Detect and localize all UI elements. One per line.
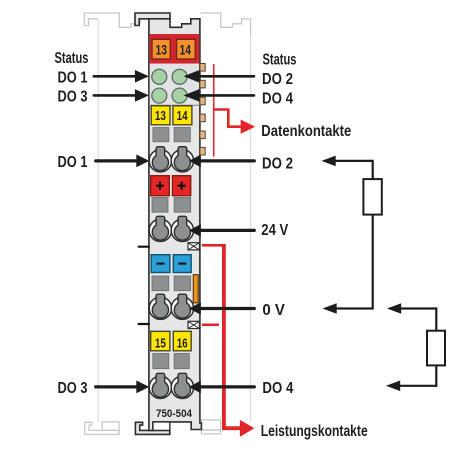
connector row4 right (CAGE CLAMP opening) xyxy=(171,373,193,398)
load circuit 1: 0V arrowhead xyxy=(323,303,337,314)
LED DO1 status xyxy=(152,69,167,84)
orange terminal square 14 (top) xyxy=(177,39,196,59)
load resistor R1 xyxy=(363,179,381,215)
power contact X-box (lower) xyxy=(188,321,199,328)
yellow terminal square 16 xyxy=(173,331,191,351)
data contact tab 6 xyxy=(200,147,205,155)
red power square + left xyxy=(151,176,170,196)
svg-text:DO 2: DO 2 xyxy=(262,71,293,88)
connector row1 right (CAGE CLAMP opening) xyxy=(171,147,193,172)
red header block xyxy=(150,34,199,64)
yellow terminal square 15 xyxy=(151,331,170,351)
LED DO3 status xyxy=(152,88,167,103)
ghost module bottom-right foot bar xyxy=(201,430,220,434)
LED panel xyxy=(150,64,199,105)
connector row3 left (CAGE CLAMP opening) xyxy=(149,294,171,319)
ghost module bottom-left foot xyxy=(85,422,119,434)
ghost module bottom-right notch xyxy=(201,420,220,430)
svg-text:Status: Status xyxy=(55,50,89,67)
red Leistungskontakte line stub (upper) xyxy=(202,244,224,247)
gray clamp square row4 right xyxy=(174,354,189,369)
data contact tab 3 xyxy=(200,97,205,105)
plus sign right xyxy=(178,182,186,190)
connector row2 left (CAGE CLAMP opening) xyxy=(149,216,171,241)
terminal arrow right DO2 xyxy=(200,159,255,162)
data contact tab 2 xyxy=(200,80,205,88)
svg-text:13: 13 xyxy=(155,108,166,123)
svg-text:24 V: 24 V xyxy=(261,222,289,239)
blue power square - left xyxy=(151,255,170,273)
terminal arrow right DO4 xyxy=(200,385,255,388)
orange release latch xyxy=(193,275,198,303)
left power-jumper contact tick (upper) xyxy=(139,246,149,248)
svg-text:14: 14 xyxy=(177,108,189,123)
minus sign right xyxy=(178,263,186,265)
red Leistungskontakte arrowhead xyxy=(240,420,255,437)
gray clamp square row3 left xyxy=(152,276,169,291)
gray clamp square row2 left xyxy=(152,198,168,213)
load resistor R2 xyxy=(427,331,445,366)
status arrow right DO4 xyxy=(198,94,254,97)
status arrow left DO3 xyxy=(94,94,137,97)
module body 750-504 xyxy=(149,19,202,431)
terminal arrow left DO1 xyxy=(96,159,138,162)
gray clamp square row4 left xyxy=(153,354,169,369)
load circuit 2: wire to DO4 xyxy=(400,365,436,385)
connector row3 right (CAGE CLAMP opening) xyxy=(171,294,193,319)
svg-text:DO 1: DO 1 xyxy=(58,154,88,171)
svg-text:16: 16 xyxy=(177,335,188,350)
terminal arrow left DO3 xyxy=(96,385,138,388)
ghost module top-left profile xyxy=(84,13,148,27)
load circuit 1: wire to 0V xyxy=(336,215,373,309)
load circuit 2: DO4 arrowhead xyxy=(386,381,400,392)
red data contacts guide line xyxy=(213,64,215,157)
status arrow right DO2 xyxy=(198,75,254,78)
svg-text:15: 15 xyxy=(155,335,166,350)
ghost module bottom-left notch xyxy=(102,422,119,431)
red power square + right xyxy=(173,176,191,196)
load circuit 1: DO2 arrowhead xyxy=(322,156,336,167)
red Leistungskontakte line stub (lower) xyxy=(202,323,219,326)
data contact tab 1 xyxy=(200,64,205,72)
svg-text:Status: Status xyxy=(263,51,297,68)
module bottom notch xyxy=(153,422,170,431)
load circuit 2: 0V arrowhead xyxy=(387,303,401,314)
minus sign left xyxy=(157,263,165,265)
svg-text:DO 2: DO 2 xyxy=(262,155,293,172)
red Leistungskontakte vertical line xyxy=(224,244,241,428)
terminal arrow right 0V xyxy=(200,307,255,310)
ghost module top-right profile xyxy=(201,13,251,34)
yellow terminal square 14 xyxy=(173,106,192,125)
yellow terminal square 13 xyxy=(151,106,170,125)
svg-text:750-504: 750-504 xyxy=(156,408,193,420)
status arrow left DO1 xyxy=(94,75,137,78)
gray clamp square row1 right xyxy=(174,128,190,142)
svg-text:14: 14 xyxy=(180,41,192,57)
svg-text:13: 13 xyxy=(155,41,167,57)
terminal arrow right 24V xyxy=(200,229,255,232)
svg-text:0 V: 0 V xyxy=(262,302,285,319)
orange terminal square 13 (top) xyxy=(152,39,170,59)
power contact X-box (upper) xyxy=(188,243,199,250)
load circuit 1: DO2 wire xyxy=(335,161,373,179)
svg-text:DO 4: DO 4 xyxy=(262,380,293,397)
connector row4 left (CAGE CLAMP opening) xyxy=(149,373,171,398)
module top DIN-rail clip bar xyxy=(135,13,170,26)
data contact tab 4 xyxy=(200,114,205,122)
module bottom foot hook xyxy=(135,422,169,434)
svg-text:DO 3: DO 3 xyxy=(58,88,88,105)
gray clamp square row3 right xyxy=(174,276,191,291)
svg-text:Leistungskontakte: Leistungskontakte xyxy=(261,423,368,440)
load circuit 2: 0V wire xyxy=(401,309,437,333)
red Datenkontakte arrow xyxy=(214,110,241,127)
gray clamp square row1 left xyxy=(153,128,169,142)
gray clamp square row2 right xyxy=(174,198,191,213)
svg-text:DO 1: DO 1 xyxy=(58,69,88,86)
svg-text:DO 3: DO 3 xyxy=(58,380,88,397)
LED DO4 status xyxy=(172,88,187,103)
svg-text:DO 4: DO 4 xyxy=(262,91,293,108)
blue power square - right xyxy=(173,255,191,273)
connector row1 left (CAGE CLAMP opening) xyxy=(149,147,171,172)
connector row2 right (CAGE CLAMP opening) xyxy=(171,216,193,241)
LED DO2 status xyxy=(172,69,187,84)
left power-jumper contact tick (lower) xyxy=(139,323,149,325)
plus sign left xyxy=(156,182,164,190)
data contact tab 5 xyxy=(200,131,205,139)
svg-text:Datenkontakte: Datenkontakte xyxy=(261,123,351,140)
